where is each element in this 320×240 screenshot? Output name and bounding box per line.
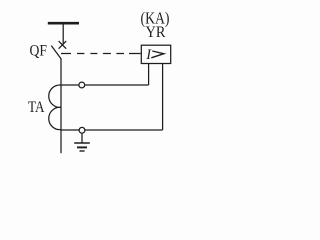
busbar <box>48 22 79 25</box>
trip linkage (dashed wire to relay) <box>61 53 141 55</box>
svg-text:I: I <box>145 47 152 63</box>
wire: main vertical feeder below breaker <box>60 58 62 153</box>
ground <box>74 133 90 151</box>
wire: drop from busbar to breaker contact <box>62 25 64 45</box>
wire: relay left lead down <box>148 64 150 85</box>
breaker QF fixed contact (x mark) <box>59 41 67 49</box>
current transformer TA winding <box>49 85 61 130</box>
relay U1 box <box>141 45 170 63</box>
relay function label > <box>151 51 164 58</box>
svg-text:TA: TA <box>28 99 45 116</box>
breaker QF moving contact (diagonal) <box>51 46 61 59</box>
wire: CT secondary upper <box>61 84 149 86</box>
svg-text:YR: YR <box>146 24 167 41</box>
wire: relay right lead down <box>162 64 164 130</box>
terminal: upper secondary <box>79 82 85 88</box>
wire: CT secondary lower <box>61 129 163 131</box>
svg-text:QF: QF <box>30 42 48 59</box>
terminal: lower secondary <box>79 127 85 133</box>
